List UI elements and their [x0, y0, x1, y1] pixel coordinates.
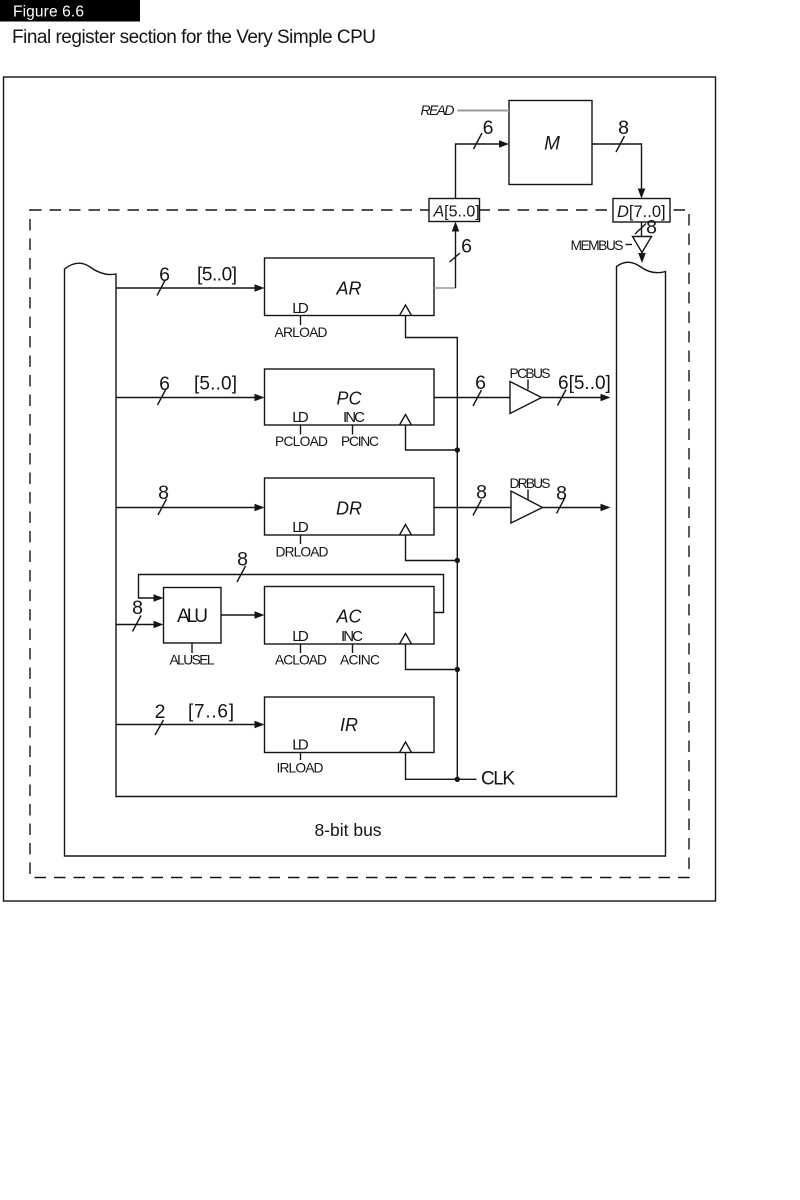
8-bit bus [65, 262, 666, 856]
svg-text:M: M [544, 134, 560, 155]
svg-text:PCLOAD: PCLOAD [275, 434, 328, 449]
svg-text:AR: AR [335, 279, 361, 299]
svg-text:D[7..0]: D[7..0] [617, 203, 666, 221]
svg-text:[7..6]: [7..6] [188, 702, 234, 723]
memory M [509, 101, 592, 185]
svg-text:6: 6 [475, 372, 486, 394]
wire: bus to PC input [116, 397, 255, 399]
wire: PC to PCBUS buffer [434, 397, 510, 399]
svg-text:INC: INC [343, 409, 365, 426]
svg-text:8: 8 [646, 217, 657, 239]
svg-text:8: 8 [618, 117, 629, 139]
wire: AR to A[5..0] [434, 287, 456, 289]
junction [455, 558, 460, 563]
svg-text:LD: LD [292, 737, 309, 754]
buffer PCBUS [510, 382, 542, 414]
svg-text:ALUSEL: ALUSEL [170, 653, 215, 668]
register IR [265, 697, 435, 753]
wire: A to M address input [456, 144, 500, 199]
wire: DR clock branch [406, 535, 458, 561]
CPU boundary (dashed) [30, 210, 689, 878]
bus width 8 (AC feedback) [237, 566, 246, 582]
CLK net: AR clock to CLK line [406, 316, 458, 780]
junction [455, 447, 460, 452]
ARLOAD control [300, 316, 302, 326]
PCINC control [352, 425, 354, 435]
svg-text:A[5..0]: A[5..0] [433, 204, 480, 221]
junction [455, 667, 460, 672]
wire: bus to DR input [116, 507, 255, 509]
svg-text:ALU: ALU [177, 606, 208, 627]
wire: M data out to D [592, 144, 642, 189]
svg-text:DRLOAD: DRLOAD [276, 545, 329, 560]
svg-text:CLK: CLK [481, 769, 515, 790]
wire: bus to IR input [116, 724, 255, 726]
figure label box [0, 0, 140, 22]
ALU [164, 588, 222, 644]
svg-text:[5..0]: [5..0] [194, 374, 237, 395]
svg-text:8: 8 [158, 482, 169, 504]
svg-text:8: 8 [237, 549, 248, 571]
CLK input [457, 778, 476, 780]
bus width 8 (MEMBUS) [635, 224, 646, 235]
wire: PCBUS buffer to bus [542, 397, 601, 399]
svg-text:LD: LD [292, 628, 309, 645]
register AR [265, 258, 435, 316]
wire: AC clock branch [406, 644, 458, 670]
svg-text:8: 8 [476, 482, 487, 504]
register AC [265, 587, 435, 645]
svg-text:6: 6 [461, 236, 472, 258]
svg-text:LD: LD [292, 519, 309, 536]
svg-text:8: 8 [132, 597, 143, 619]
wire: bus to ALU input [116, 624, 154, 626]
svg-text:PC: PC [336, 389, 362, 409]
IRLOAD control [300, 753, 302, 761]
svg-text:PCINC: PCINC [341, 434, 379, 449]
wire: MEMBUS buffer to bus [641, 253, 643, 255]
svg-text:LD: LD [292, 300, 309, 317]
ALUSEL control [191, 643, 193, 653]
node D[7..0] [613, 199, 670, 223]
bus width 6 (M address) [474, 133, 483, 149]
svg-text:READ: READ [421, 102, 455, 118]
DRLOAD control [300, 535, 302, 544]
svg-text:DRBUS: DRBUS [510, 476, 551, 491]
svg-text:8: 8 [556, 483, 567, 505]
junction [455, 777, 460, 782]
svg-text:6: 6 [159, 264, 170, 286]
svg-text:IRLOAD: IRLOAD [277, 761, 324, 776]
buffer MEMBUS [633, 237, 652, 253]
svg-text:PCBUS: PCBUS [510, 366, 551, 381]
svg-text:MEMBUS: MEMBUS [571, 238, 624, 253]
wire: PC clock branch [406, 425, 458, 450]
svg-text:[5..0]: [5..0] [197, 265, 237, 286]
bus width 8 (M data) [616, 136, 625, 152]
wire: DRBUS buffer to bus [543, 507, 601, 509]
svg-text:INC: INC [341, 628, 363, 645]
wire: AC feedback to ALU [139, 575, 444, 613]
register DR [265, 478, 435, 535]
wire: D to MEMBUS buffer [641, 222, 643, 237]
wire: ALU to AC [221, 614, 255, 616]
PCLOAD control [300, 425, 302, 435]
buffer DRBUS [511, 491, 543, 523]
svg-text:ACINC: ACINC [340, 653, 380, 668]
svg-text:IR: IR [340, 715, 358, 735]
svg-text:Final register section for the: Final register section for the Very Simp… [12, 27, 376, 48]
wire: DR to DRBUS buffer [434, 507, 511, 509]
svg-text:8-bit bus: 8-bit bus [314, 820, 381, 840]
svg-text:ARLOAD: ARLOAD [275, 325, 328, 340]
svg-text:Figure 6.6: Figure 6.6 [13, 4, 84, 21]
ACINC control [352, 644, 354, 653]
ACLOAD control [300, 644, 302, 653]
wire: bus to AR input [116, 287, 255, 289]
svg-text:AC: AC [335, 607, 362, 627]
svg-text:ACLOAD: ACLOAD [275, 653, 327, 668]
svg-text:6[5..0]: 6[5..0] [558, 373, 611, 394]
svg-text:2: 2 [155, 701, 166, 723]
register PC [265, 369, 435, 425]
wire: IR clock branch [406, 753, 458, 780]
node A[5..0] [429, 199, 480, 222]
svg-text:DR: DR [336, 499, 362, 519]
svg-text:6: 6 [159, 373, 170, 395]
svg-text:LD: LD [292, 409, 309, 426]
svg-text:6: 6 [483, 117, 494, 139]
